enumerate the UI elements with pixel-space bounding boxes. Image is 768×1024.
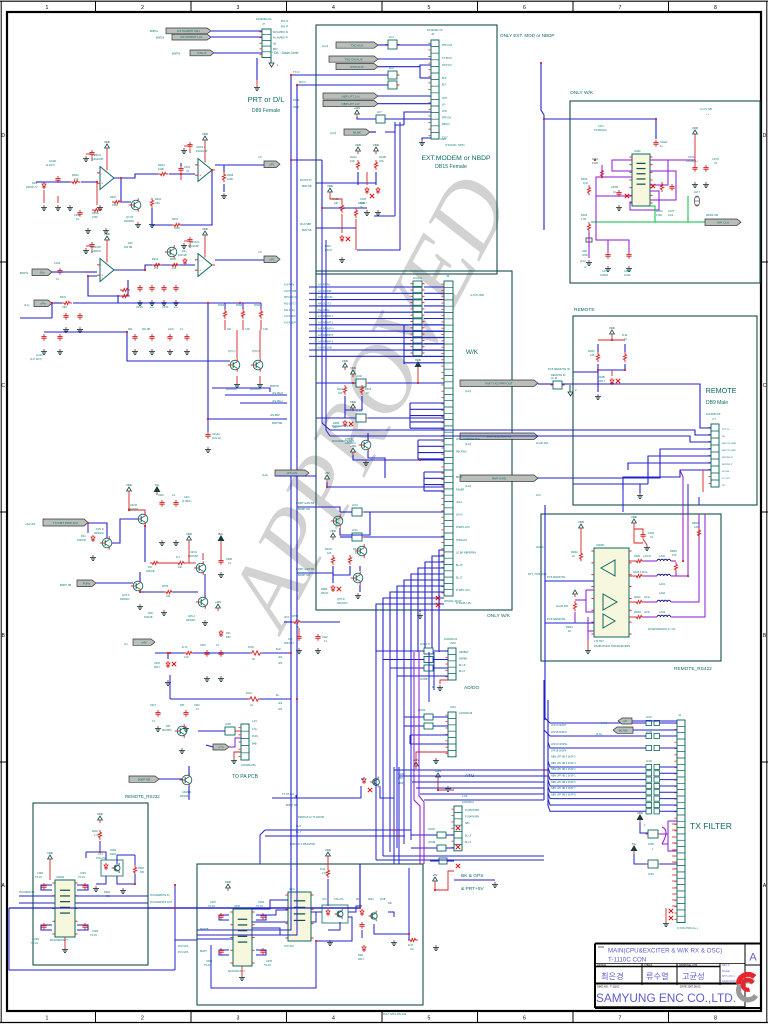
svg-text:APPROVAL CHK: APPROVAL CHK	[679, 964, 698, 967]
transistor Q70 row3	[165, 245, 177, 259]
svg-text:J4: J4	[678, 713, 681, 717]
svg-text:C040: C040	[194, 704, 200, 707]
svg-text:Q7H D: Q7H D	[337, 598, 345, 601]
svg-text:2.7K: 2.7K	[94, 834, 99, 837]
svg-text:CN01: CN01	[80, 872, 87, 875]
svg-text:(A-N): (A-N)	[262, 474, 268, 477]
svg-text:T/0.1N: T/0.1N	[31, 943, 38, 945]
svg-text:10K: 10K	[379, 159, 384, 163]
svg-text:RACN: RACN	[358, 202, 365, 205]
wk transistor Q7H2	[337, 571, 363, 605]
svg-text:RMT/RX N: RMT/RX N	[722, 457, 733, 459]
teal labels misc onlyWK	[580, 107, 712, 269]
resistor R404 100K	[172, 218, 182, 230]
svg-text:10/1L: 10/1L	[644, 596, 651, 599]
svg-text:Q0N A: Q0N A	[188, 615, 195, 618]
svg-text:RMT/TX GN/N: RMT/TX GN/N	[722, 443, 737, 445]
ext vertical pair from J2	[357, 122, 400, 250]
vertical wire to ONLY WK	[541, 63, 570, 230]
svg-text:C411: C411	[184, 496, 190, 499]
svg-text:B00P7 NB: B00P7 NB	[60, 584, 72, 587]
svg-text:C0H1: C0H1	[154, 662, 161, 665]
resistor trio RH22 RH23 RH24	[218, 303, 268, 331]
rs232 R04H 300	[133, 865, 144, 875]
svg-text:3.9K: 3.9K	[263, 328, 268, 331]
svg-text:NBN LPF NB 1 3K3P 1: NBN LPF NB 1 3K3P 1	[551, 775, 576, 778]
input network row2	[52, 262, 118, 332]
svg-text:RA00: RA00	[588, 349, 595, 353]
vdd rs232	[47, 851, 53, 880]
svg-text:(A-N): (A-N)	[465, 442, 471, 446]
transistor Q7N b	[120, 579, 143, 609]
svg-text:Q71 B: Q71 B	[126, 216, 133, 219]
wires bl rails mid	[260, 830, 411, 864]
bundle right turn txfilter feeds	[394, 770, 548, 800]
svg-text:R296: R296	[227, 173, 234, 177]
label UMP TXGND/SPK	[440, 137, 465, 147]
svg-text:RA0H: RA0H	[325, 548, 332, 551]
svg-text:GC10: GC10	[36, 354, 43, 357]
svg-text:TXD GN AUX: TXD GN AUX	[344, 57, 362, 61]
net tag NBP GN/DNB LPT 2-N	[323, 93, 378, 99]
svg-text:RX PA/RMT ADJ: RX PA/RMT ADJ	[177, 29, 200, 33]
svg-text:C021: C021	[184, 165, 191, 169]
bottom gnd U001	[239, 966, 245, 980]
svg-text:C04T: C04T	[360, 197, 367, 201]
label ATU	[465, 773, 475, 779]
W/K main section box	[316, 271, 512, 610]
svg-text:0A: 0A	[252, 658, 255, 661]
svg-text:DB9 Male: DB9 Male	[706, 400, 728, 406]
net tag RX PA/RMT ADJ	[150, 28, 211, 34]
svg-text:RX.N: RX.N	[299, 80, 306, 84]
fuse FU00	[248, 646, 262, 661]
APPROVED watermark	[203, 159, 531, 648]
+5V arrow wk2	[324, 471, 444, 487]
svg-text:DATE 2007.05.02: DATE 2007.05.02	[680, 985, 701, 989]
svg-text:0.1: 0.1	[150, 306, 154, 309]
svg-text:2A: 2A	[250, 704, 253, 707]
svg-text:R-01: R-01	[622, 333, 628, 337]
net tag RXD GN/DB AUX	[336, 64, 378, 70]
svg-text:A-N Pa2NP 4: A-N Pa2NP 4	[284, 315, 298, 318]
label REMOTE_RS232	[125, 794, 160, 799]
svg-text:TX PA LVL: TX PA LVL	[282, 792, 295, 796]
svg-text:R422: R422	[337, 388, 344, 391]
wk diode D2B6	[321, 585, 341, 595]
svg-text:102303D-04: 102303D-04	[256, 17, 272, 21]
wk resistor pair RA0H	[325, 548, 360, 565]
wk gnd q7h1	[363, 460, 369, 465]
cap C021 0.1	[178, 165, 190, 173]
txfilter net tags	[596, 718, 633, 736]
svg-text:B+P: B+P	[276, 648, 281, 651]
svg-text:RMMT uuPR B4: RMMT uuPR B4	[296, 568, 315, 571]
svg-text:U20 D: U20 D	[190, 551, 197, 554]
svg-text:0.02A: 0.02A	[624, 273, 631, 277]
diode D04B remote	[598, 375, 620, 385]
svg-text:120: 120	[694, 525, 699, 529]
output tag J-P1	[215, 156, 280, 168]
svg-text:RXD AUX: RXD AUX	[350, 65, 363, 69]
rs232 opto wires	[86, 841, 135, 884]
svg-text:RMT GND: RMT GND	[492, 477, 507, 481]
svg-text:LFN0B: LFN0B	[428, 842, 436, 844]
svg-text:J7: J7	[262, 22, 265, 26]
svg-text:102303D-05A: 102303D-05A	[241, 764, 256, 767]
label DJ rs422	[648, 628, 676, 631]
svg-text:(A-N): (A-N)	[596, 733, 602, 736]
svg-text:T/0.1N: T/0.1N	[35, 877, 42, 879]
resistor R-TC mid	[176, 556, 186, 569]
output tag row2	[258, 251, 280, 263]
bundle verticals right of box	[394, 744, 404, 864]
svg-text:(A-N): (A-N)	[330, 131, 336, 135]
svg-text:TX.N: TX.N	[293, 70, 299, 74]
svg-text:LPF1B 3K3PN: LPF1B 3K3PN	[551, 731, 567, 734]
wire J2 gnd	[419, 138, 431, 145]
svg-text:* *: * *	[706, 113, 709, 117]
svg-text:RA2B: RA2B	[379, 155, 386, 159]
svg-text:PC6 REMOTE: PC6 REMOTE	[19, 891, 35, 894]
svg-text:uPa: uPa	[40, 302, 46, 306]
wires exit right y388-403	[212, 388, 287, 403]
svg-text:NB0: NB0	[465, 823, 470, 825]
wires bottom onlyWK	[586, 196, 629, 265]
labels exit right y385-420	[270, 385, 283, 425]
svg-text:+5V: +5V	[324, 471, 329, 475]
svg-text:KR002IU: KR002IU	[94, 532, 104, 535]
IC U011 bottom	[284, 888, 314, 948]
net tag WKRF NB	[705, 213, 741, 225]
svg-text:+: +	[101, 181, 103, 185]
svg-text:120: 120	[672, 553, 677, 557]
svg-text:+: +	[101, 273, 103, 277]
mid network row2	[152, 250, 187, 270]
wk 12wire source slants	[309, 287, 316, 356]
svg-text:SCALE: SCALE	[722, 970, 730, 973]
svg-text:J-15: J-15	[252, 720, 257, 723]
svg-text:uP4: uP4	[278, 708, 283, 711]
svg-text:류수열: 류수열	[646, 972, 669, 981]
svg-text:RX-N: RX-N	[281, 19, 288, 23]
svg-text:A4(210X297): A4(210X297)	[722, 980, 736, 983]
svg-text:A-N PA/Pa: A-N PA/Pa	[318, 284, 331, 287]
wk left input wires mid	[297, 507, 340, 573]
vdd bkgps bottom +5V	[432, 871, 454, 890]
net tag RMT RX 232 OUT	[460, 380, 538, 393]
blue riser pair right of bottom box	[429, 652, 434, 702]
svg-text:VDD: VDD	[97, 812, 103, 816]
svg-text:LP- N-P: LP- N-P	[722, 478, 730, 480]
vdd bkgps top	[435, 769, 454, 792]
wire fb stage2	[152, 170, 212, 225]
svg-text:LF10: LF10	[352, 503, 358, 507]
svg-text:270: 270	[74, 177, 79, 181]
svg-text:REMOTE: REMOTE	[574, 307, 595, 313]
svg-text:D2B6: D2B6	[321, 588, 328, 591]
vdd arrows RA2	[355, 143, 379, 154]
txfilter conn stub wires right mid	[672, 824, 677, 906]
svg-text:7: 7	[619, 5, 622, 11]
wire pa pcb net	[272, 795, 361, 798]
svg-text:MAX202ECSE/T: MAX202ECSE/T	[50, 939, 68, 942]
wire ext lower	[291, 160, 376, 208]
svg-text:+5V: +5V	[432, 873, 437, 877]
rs232 cap loop right top	[77, 872, 88, 890]
svg-text:DB15 Female: DB15 Female	[435, 164, 467, 170]
svg-text:1.5K: 1.5K	[581, 217, 587, 221]
svg-text:T3+: T3+	[632, 842, 637, 846]
rs232 cap loop left bottom	[31, 923, 52, 945]
sub 2 symbol	[568, 385, 577, 396]
labels rails remote	[332, 425, 355, 443]
svg-text:VDD: VDD	[355, 143, 361, 147]
svg-text:RMMT uuPR B4: RMMT uuPR B4	[296, 502, 315, 505]
op-amp U2B1-A stage1	[83, 140, 117, 190]
svg-text:DESIGN: DESIGN	[597, 964, 606, 967]
svg-text:LPU: LPU	[536, 494, 541, 497]
caps C020b D00b	[200, 644, 224, 681]
xmarks wk conn bottom	[436, 596, 440, 607]
IC U001 bottom	[228, 905, 255, 973]
label REMOTE_RS422	[674, 666, 712, 672]
svg-text:0.1: 0.1	[186, 169, 190, 173]
xmark ic pin	[625, 184, 655, 198]
svg-text:PC6 REMOTE: PC6 REMOTE	[547, 575, 565, 579]
svg-text:+: +	[199, 268, 201, 272]
svg-text:BL.LT: BL.LT	[465, 842, 472, 844]
svg-text:10K: 10K	[227, 328, 232, 331]
net tag DNL RIN	[172, 50, 214, 56]
svg-text:NBN LPF NB 0 3K3P 8: NBN LPF NB 0 3K3P 8	[551, 793, 576, 796]
label ONLY W/K bottom	[487, 613, 511, 619]
resistor RR0Z right top	[692, 521, 701, 538]
svg-text:1K: 1K	[572, 554, 575, 558]
vdd rs422 left	[578, 520, 584, 531]
wk left edge bus entries	[0, 0, 1, 1]
svg-text:D0T: D0T	[166, 725, 171, 728]
svg-text:C0N3: C0N3	[258, 901, 265, 904]
TVS zener C0H1	[154, 661, 176, 685]
svg-text:RR0Z: RR0Z	[692, 521, 699, 525]
svg-text:K70+070: K70+070	[334, 899, 344, 901]
svg-text:KR002IU: KR002IU	[186, 620, 196, 622]
resistor RA2B	[374, 155, 386, 170]
svg-text:SAMYUNG ENC CO.,LTD.: SAMYUNG ENC CO.,LTD.	[596, 991, 736, 1005]
net tag TX RMT PWR ADJ	[25, 519, 88, 526]
svg-text:10K: 10K	[334, 202, 339, 205]
purple loop txfilter	[660, 821, 677, 851]
svg-text:3.9K: 3.9K	[245, 328, 250, 331]
svg-text:B00PT: B00PT	[200, 951, 208, 953]
wk mid transistor Q7N	[331, 512, 370, 535]
svg-text:C07T: C07T	[668, 209, 675, 213]
transistor Q0N right2	[186, 595, 208, 622]
svg-text:NBN LPF NB 3 3K3P 3: NBN LPF NB 3 3K3P 3	[551, 762, 576, 765]
svg-text:R00.7: R00.7	[358, 958, 365, 961]
svg-text:B00P NB: B00P NB	[138, 778, 150, 782]
svg-text:C: C	[763, 383, 767, 389]
net tag RX PA/RMT LVL	[156, 34, 211, 40]
ext wire PA PPP IN	[300, 179, 358, 188]
svg-text:102303D-04: 102303D-04	[444, 638, 458, 641]
svg-text:D89 Female: D89 Female	[252, 108, 280, 114]
svg-text:0.1: 0.1	[650, 535, 654, 539]
net tag remote 2	[460, 433, 538, 446]
svg-text:MULT GPS RS-232: MULT GPS RS-232	[382, 1012, 407, 1016]
xmarks txfilter conn	[669, 909, 673, 920]
svg-text:NBP LPT 2-N: NBP LPT 2-N	[341, 94, 359, 98]
wire stage1-2	[114, 163, 195, 180]
svg-text:BMP7B: BMP7B	[172, 53, 181, 56]
svg-text:C04B: C04B	[226, 558, 232, 561]
svg-text:P/ B2/PL LPU: P/ B2/PL LPU	[456, 602, 472, 605]
svg-text:C0N7: C0N7	[210, 901, 217, 904]
svg-text:Q7U U: Q7U U	[228, 350, 236, 353]
resistors out row2	[633, 571, 649, 578]
label W/K	[466, 349, 479, 356]
svg-text:ONLY W/K: ONLY W/K	[487, 613, 511, 619]
blue verticals through rs422 region	[544, 505, 546, 720]
wire rail 653	[155, 653, 291, 659]
svg-text:0.1: 0.1	[56, 278, 60, 281]
green wire w/k clock out	[591, 196, 705, 222]
svg-text:DD0N2.7V: DD0N2.7V	[26, 186, 38, 189]
svg-text:RR0C: RR0C	[670, 549, 677, 553]
svg-text:1: 1	[46, 1016, 49, 1022]
label PC6 REMOTE IN remote	[548, 367, 570, 377]
wire from rs232 right to bottom box	[148, 864, 360, 908]
svg-text:PC6 GPS: PC6 GPS	[178, 945, 189, 948]
label PAT or D/L D89 Female	[248, 95, 285, 114]
svg-text:LFN04 D: LFN04 D	[420, 643, 430, 646]
svg-text:T/0.1N: T/0.1N	[90, 935, 97, 937]
svg-text:A-N P2 LNB: A-N P2 LNB	[318, 347, 332, 350]
svg-text:R001T: R001T	[321, 592, 329, 595]
lf boxes bkgps	[428, 829, 450, 864]
txfilter row labels	[551, 724, 576, 796]
svg-text:LPU LAN/MRNL PAL/: LPU LAN/MRNL PAL/	[456, 438, 480, 441]
svg-text:DWG NO : T-1110C: DWG NO : T-1110C	[597, 985, 620, 989]
bottom right riser	[380, 868, 409, 940]
svg-text:P1 B4P4/5PN: P1 B4P4/5PN	[465, 810, 480, 812]
svg-text:C004: C004	[648, 531, 655, 535]
label C07+ 76.8KHZ	[594, 124, 607, 132]
svg-text:KRC02IU: KRC02IU	[337, 602, 348, 605]
svg-text:uP N: uP N	[284, 616, 290, 619]
svg-text:R204: R204	[581, 177, 588, 181]
svg-text:PBL/PBLI: PBL/PBLI	[456, 451, 467, 454]
svg-text:VDD: VDD	[327, 184, 333, 188]
label BK & GPS	[461, 873, 485, 892]
svg-text:J-P: J-P	[258, 156, 262, 159]
svg-text:R-T: R-T	[176, 556, 181, 559]
svg-text:D00: D00	[128, 242, 133, 245]
svg-text:D01: D01	[182, 250, 187, 253]
svg-text:TO PA PCB: TO PA PCB	[232, 774, 259, 780]
svg-text:LF1C: LF1C	[646, 716, 652, 719]
svg-text:K001KB: K001KB	[146, 571, 155, 573]
svg-text:6: 6	[523, 1016, 526, 1022]
svg-text:UMP: UMP	[440, 137, 446, 141]
bottom loop wire	[211, 917, 352, 988]
svg-text:T/0.1N: T/0.1N	[78, 877, 85, 879]
svg-text:R00.7: R00.7	[154, 666, 161, 669]
ONLY W/K top-right section box	[570, 101, 760, 283]
svg-text:A-N Pa2NP 2: A-N Pa2NP 2	[284, 321, 298, 324]
svg-text:C07+: C07+	[598, 124, 605, 128]
svg-text:R414: R414	[170, 258, 177, 261]
bottom gnds	[327, 940, 397, 945]
svg-text:C07N: C07N	[712, 157, 719, 161]
svg-text:BLNK: BLNK	[353, 130, 361, 134]
left vertical rails continue	[197, 653, 297, 935]
svg-text:LA03: LA03	[659, 610, 666, 614]
label REMOTE DB9 Male	[706, 386, 737, 406]
blue wire rs422 in2	[545, 617, 594, 623]
svg-text:C02: C02	[288, 638, 293, 641]
svg-text:D07: D07	[148, 566, 153, 569]
net tag OPT abv	[262, 470, 309, 477]
svg-text:RACB: RACB	[332, 198, 339, 201]
blue wire rs422 in1	[545, 575, 594, 581]
svg-text:1K: 1K	[366, 392, 369, 395]
wk net label rows left	[296, 502, 315, 577]
input tag row2a	[20, 269, 52, 276]
svg-text:R-0B: R-0B	[380, 899, 386, 901]
resistor RA2A	[350, 155, 360, 170]
label ONLY W/K	[570, 90, 594, 96]
svg-text:R2N8: R2N8	[92, 212, 99, 215]
input tag row2b	[24, 300, 52, 307]
svg-text:TX FILTER: TX FILTER	[690, 821, 732, 831]
svg-text:R2N7: R2N7	[110, 196, 117, 199]
connector JN01 atu	[445, 706, 472, 757]
connector JN0 bkgps	[451, 795, 479, 851]
svg-text:470K: 470K	[656, 213, 662, 217]
wk conn fan mid	[410, 403, 444, 428]
svg-text:CN: CN	[410, 948, 414, 951]
svg-text:NBN LPF NB 4 3K3P 0: NBN LPF NB 4 3K3P 0	[551, 756, 576, 759]
svg-text:RH24: RH24	[254, 304, 261, 307]
wires lf40 to conn	[316, 370, 444, 383]
svg-text:uPa 0Ba 2: uPa 0Ba 2	[272, 401, 283, 403]
resistor RR02 rs422	[571, 531, 583, 561]
svg-text:R-T2: R-T2	[182, 646, 188, 649]
svg-text:ALAPI D01: ALAPI D01	[536, 442, 549, 445]
svg-text:GD2N D: GD2N D	[182, 791, 191, 794]
svg-text:RMMT+B LX TX ASTDB: RMMT+B LX TX ASTDB	[298, 816, 324, 819]
resistor R401	[149, 198, 162, 227]
svg-text:DN00: DN00	[110, 849, 117, 852]
svg-text:100: 100	[172, 267, 177, 270]
svg-text:10K: 10K	[166, 595, 171, 598]
bundle turn right to bkgps	[376, 856, 544, 860]
svg-text:RR04: RR04	[566, 625, 573, 629]
svg-text:LP-: LP-	[442, 103, 446, 106]
svg-text:AD/DO: AD/DO	[464, 685, 479, 691]
bottom diode D00I	[358, 945, 366, 961]
svg-text:10K: 10K	[350, 159, 355, 163]
svg-text:C0N9: C0N9	[206, 960, 213, 963]
svg-text:u4V: u4V	[141, 641, 146, 645]
svg-text:P1 B4P4/5PN: P1 B4P4/5PN	[465, 816, 480, 818]
coil LA01 row2	[657, 574, 671, 586]
svg-text:BL.LP: BL.LP	[456, 564, 463, 567]
txfilter row slants	[544, 717, 560, 811]
svg-text:VDD: VDD	[578, 520, 584, 524]
